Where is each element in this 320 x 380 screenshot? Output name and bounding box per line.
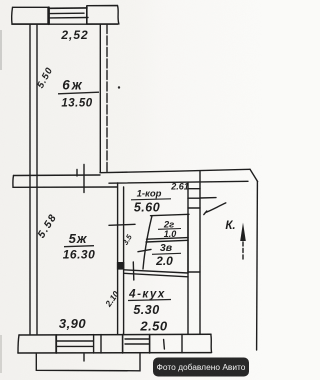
corridor north wall (outer) — [100, 169, 250, 172]
bottom band dividers — [55, 335, 57, 353]
room 6zh west wall — [29, 25, 31, 335]
tick inside right bottom cell — [163, 340, 166, 350]
ladder wall east line — [199, 172, 201, 335]
tick right of ladder — [200, 197, 216, 199]
bathroom top line — [151, 214, 190, 215]
bathroom east wall — [187, 214, 189, 273]
left page-edge smudges — [0, 30, 2, 70]
avito watermark badge — [153, 358, 249, 377]
tick on bathroom west wall — [138, 249, 151, 251]
dot in room 6zh — [118, 86, 120, 88]
top wall bottom edge — [12, 23, 118, 25]
bottom window lines right — [125, 338, 149, 340]
top wall window — [50, 7, 87, 9]
outer NE bevel corner — [250, 169, 258, 181]
ladder wall west line — [187, 183, 189, 334]
top wall right pier — [87, 6, 119, 25]
balcony bracket — [36, 354, 140, 371]
direction arrow shaft — [242, 242, 244, 260]
door post filled — [117, 262, 124, 270]
long tick through middle band — [83, 165, 85, 193]
bottom band outline — [19, 333, 211, 336]
right outer wall — [256, 182, 259, 351]
middle wall band between 6zh and 5zh — [14, 174, 101, 177]
room 5zh east wall — [117, 183, 119, 334]
kitchen north wall double line — [124, 270, 188, 273]
bathroom middle double line — [147, 238, 189, 240]
ladder rungs — [188, 188, 200, 190]
bottom window lines left — [57, 340, 93, 342]
cross tick at kitchen door — [132, 262, 135, 280]
top wall left pier — [12, 7, 48, 24]
tick below band — [83, 354, 85, 361]
direction arrow head — [240, 223, 246, 242]
bathroom slanted west wall — [143, 216, 152, 269]
hand dash pointer — [204, 203, 226, 215]
room 6zh east wall — [99, 25, 101, 173]
short tick above middle band — [76, 170, 78, 177]
door tick on 5zh east wall — [109, 224, 135, 225]
